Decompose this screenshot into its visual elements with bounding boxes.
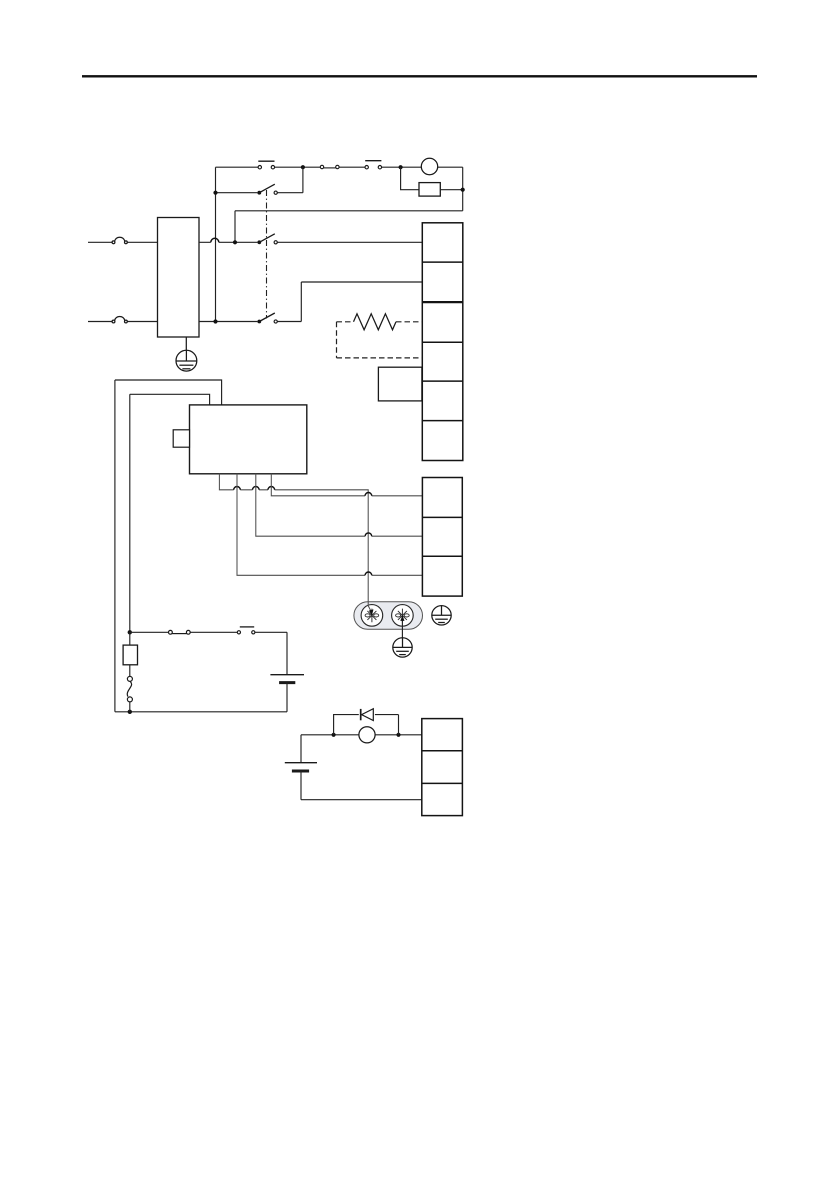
wire: diode bypass	[334, 715, 399, 735]
arrow into lamp PL2	[400, 615, 404, 621]
wire: feed 2 to control unit	[130, 394, 210, 405]
box K1	[378, 367, 422, 401]
crossover bump on output C	[365, 533, 372, 536]
switch SW4 (ganged)	[257, 234, 277, 244]
wire: top bus horizontal segments	[216, 166, 463, 168]
wire: PL2 to ground G3	[401, 615, 403, 637]
battery BT2	[285, 763, 317, 771]
wire: left side down to battery BT2	[300, 735, 302, 763]
wire: resistor to right drop	[440, 189, 462, 191]
switch SW5 (ganged)	[257, 313, 277, 323]
wire: BT2 to TB3 pin3	[301, 771, 422, 800]
wire: feed into lamp PL1	[368, 602, 371, 612]
fuse F3	[127, 676, 132, 702]
node J2	[399, 165, 403, 169]
arrow into lamp PL1	[369, 609, 374, 615]
wire: branch J2 down to resistor	[401, 167, 419, 190]
connector F1	[112, 237, 127, 243]
wire: long vertical 2	[129, 394, 131, 632]
ground G1	[176, 337, 197, 371]
connector F2	[112, 317, 127, 323]
pushbutton switch S2	[365, 161, 382, 169]
mechanical link (dash-dot)	[266, 190, 268, 319]
wire: feed 1 to control unit	[115, 380, 222, 405]
terminal block TB1	[422, 223, 463, 461]
wire: SW5 to TB1 pin2	[277, 282, 422, 322]
wire: output A (stub1 to lamp feed)	[219, 474, 368, 602]
header rule	[82, 75, 757, 77]
lamp PL2	[392, 605, 414, 627]
wire: output D (stub2 to TB2 pin3)	[237, 474, 422, 576]
connector X1	[320, 165, 339, 168]
node J5	[233, 240, 237, 244]
relay coil K2	[123, 645, 137, 665]
lamp L1	[421, 158, 437, 174]
wire: top bus left vertical	[215, 167, 217, 321]
ground G3	[393, 638, 412, 657]
lamp holder outline	[354, 602, 423, 630]
control unit U1	[190, 405, 307, 474]
wire: AC line 1 left	[88, 241, 158, 243]
node J4	[213, 191, 217, 195]
node J9	[332, 733, 336, 737]
lamp L2	[359, 727, 375, 743]
node J8	[128, 710, 132, 714]
pushbutton switch S3	[237, 627, 255, 634]
wire: output B (stub4 to TB2 pin1)	[271, 474, 422, 496]
wire: BT1 to loop bottom	[286, 683, 288, 712]
resistor R1	[419, 183, 440, 197]
wire: dashed link left and bottom	[337, 322, 422, 358]
wire: AC line 2 left	[88, 321, 158, 323]
crossover bump B1	[211, 238, 219, 242]
ground G2	[432, 606, 451, 625]
wire: output C (stub3 to TB2 pin2)	[256, 474, 423, 536]
pushbutton switch S1	[258, 161, 275, 169]
transformer T1	[158, 218, 200, 338]
crossover bumps on output A	[234, 487, 275, 490]
node J7	[128, 630, 132, 634]
wire: T1 out 1 with crossover bump	[199, 241, 257, 243]
node J6	[213, 319, 217, 323]
terminal block TB3	[422, 719, 463, 816]
terminal block TB2	[422, 478, 462, 597]
resistor R2	[354, 314, 397, 330]
node J1	[301, 165, 305, 169]
crossover bump on output D	[365, 572, 372, 575]
wire: row2 horizontal	[216, 167, 303, 193]
connector X2	[169, 630, 191, 634]
wire: right drop from top bus	[462, 167, 464, 211]
wire: TB3 pin1 feed	[301, 734, 422, 736]
wire: T1 out 2	[199, 321, 257, 323]
wire: fuse to loop bottom	[129, 702, 131, 712]
wire: SW4 to terminal block TB1 pin1	[277, 241, 422, 243]
connector tab of U1	[173, 430, 189, 447]
wire: loop top	[130, 632, 287, 674]
wire: loop bottom	[115, 711, 287, 713]
wire: K2 to fuse	[129, 632, 131, 676]
battery BT1	[270, 675, 304, 683]
diode D1	[361, 709, 374, 721]
switch SW3 (ganged)	[257, 184, 277, 194]
node J10	[396, 733, 400, 737]
wire: dashed link top	[337, 321, 423, 323]
wire: long vertical 1	[114, 380, 116, 712]
crossover bump on output B	[365, 492, 372, 495]
lamp PL1	[361, 605, 383, 627]
node J3	[461, 188, 465, 192]
wire: row3 return	[235, 211, 463, 243]
